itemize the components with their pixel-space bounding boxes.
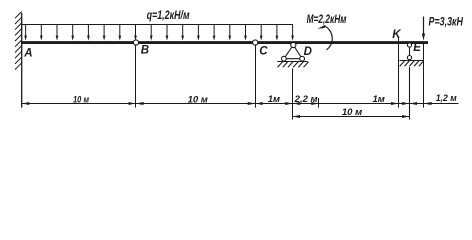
force P arrow — [422, 17, 425, 41]
dimension arrowheads — [22, 102, 432, 118]
dimension extension lines — [136, 37, 424, 120]
link support E — [400, 43, 424, 66]
fixed wall support at A — [15, 12, 22, 108]
svg-text:M=2,2кНм: M=2,2кНм — [307, 14, 347, 26]
svg-text:A: A — [23, 48, 32, 60]
svg-text:1,2 м: 1,2 м — [436, 93, 457, 104]
beam A-E — [22, 41, 428, 44]
svg-text:10 м: 10 м — [73, 95, 89, 106]
svg-text:1м: 1м — [372, 94, 384, 105]
svg-text:E: E — [413, 42, 421, 54]
svg-text:P=3,3кН: P=3,3кН — [429, 16, 464, 28]
svg-text:K: K — [392, 29, 401, 41]
hinge C — [253, 40, 258, 45]
dimension line lower — [293, 116, 410, 118]
svg-text:B: B — [141, 45, 149, 57]
distributed load arrows — [24, 25, 294, 41]
svg-text:1м: 1м — [268, 94, 280, 105]
moment arc M — [318, 25, 333, 50]
hinge B — [133, 40, 138, 45]
roller support D — [277, 42, 308, 67]
svg-text:D: D — [304, 46, 312, 58]
svg-text:2,2 м: 2,2 м — [294, 94, 318, 105]
svg-text:10 м: 10 м — [342, 107, 362, 118]
svg-text:C: C — [259, 46, 268, 58]
svg-text:q=1,2кН/м: q=1,2кН/м — [147, 10, 190, 22]
dimension line upper — [22, 103, 459, 105]
distributed load q line — [22, 24, 293, 26]
svg-text:10 м: 10 м — [188, 95, 208, 106]
